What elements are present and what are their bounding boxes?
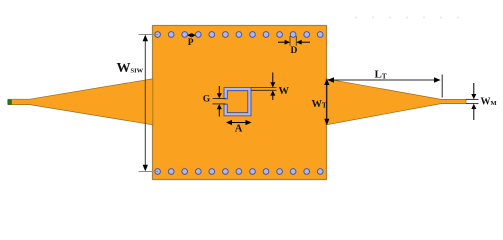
via T11 — [290, 32, 296, 38]
dimension W up arrow — [272, 93, 274, 100]
dimension G up arrow — [218, 107, 220, 117]
via T8 — [250, 32, 256, 38]
right taper transition with microstrip line — [326, 79, 466, 125]
via B9 — [263, 169, 269, 175]
dimension W down arrow — [272, 73, 274, 85]
dimension D tangent line left — [289, 36, 291, 46]
SIW copper body plane — [153, 26, 327, 180]
svg-text:D: D — [291, 46, 298, 56]
dimension W ring extension line bottom — [251, 89, 277, 91]
via B7 — [236, 169, 242, 175]
arrowhead A right — [246, 120, 252, 125]
svg-text:G: G — [203, 95, 211, 105]
dimension W_SIW extension line bottom — [139, 171, 159, 173]
dimension W_M extension line top — [466, 98, 479, 100]
dimension W_M down arrow — [473, 83, 475, 96]
arrowhead W_T bottom — [324, 119, 329, 125]
dimension D left arrow — [278, 41, 287, 43]
arrowhead P left — [187, 33, 191, 37]
arrowhead P right — [192, 33, 196, 37]
svg-text:LT: LT — [375, 69, 387, 81]
svg-text:WSIW: WSIW — [117, 61, 144, 76]
via T2 — [168, 32, 174, 38]
dimension D tangent line right — [295, 36, 297, 46]
dimension A arrow — [229, 122, 250, 124]
dimension G tick top — [213, 98, 226, 100]
dimension W ring extension line top — [251, 87, 277, 89]
via T13 — [317, 32, 323, 38]
dimension L_T extension line right — [441, 75, 443, 98]
via T10 — [277, 32, 283, 38]
dimension G tick bottom — [213, 103, 226, 105]
dimension W_SIW extension line top — [139, 34, 159, 36]
port marker (green) — [8, 100, 12, 104]
via B3 — [182, 169, 188, 175]
svg-text:P: P — [188, 38, 194, 48]
arrowhead L_T left — [327, 77, 334, 82]
svg-text:WM: WM — [481, 96, 497, 107]
via T7 — [236, 32, 242, 38]
svg-text:W: W — [279, 86, 290, 97]
svg-text:A: A — [235, 124, 243, 135]
arrowhead W_SIW bottom — [143, 165, 148, 172]
via T9 — [263, 32, 269, 38]
via B1 — [155, 169, 161, 175]
dimension W_SIW arrow line — [144, 37, 146, 169]
dimension D right arrow — [299, 41, 310, 43]
via B13 — [317, 169, 323, 175]
via T5 — [209, 32, 215, 38]
dimension L_T arrow line — [330, 79, 439, 81]
dimension G down arrow — [218, 86, 220, 96]
via B5 — [209, 169, 215, 175]
dimension W_M extension line bottom — [466, 103, 479, 105]
arrowhead A left — [226, 120, 232, 125]
via T6 — [223, 32, 229, 38]
arrowhead L_T right — [434, 77, 441, 82]
dimension W_M up arrow — [473, 107, 475, 120]
split ring resonator SRR — [224, 88, 251, 116]
via B8 — [250, 169, 256, 175]
via B4 — [195, 169, 201, 175]
dimension P arrow — [188, 34, 195, 36]
via B11 — [290, 169, 296, 175]
via B2 — [168, 169, 174, 175]
via holes top row — [155, 32, 323, 38]
via T1 — [155, 32, 161, 38]
faint dotted artifact row top right — [355, 16, 459, 18]
dimension W_T arrow line — [326, 82, 328, 123]
via B6 — [223, 169, 229, 175]
arrowhead W_T top — [324, 79, 329, 85]
via holes bottom row — [155, 169, 323, 175]
via T4 — [195, 32, 201, 38]
arrowhead W_SIW top — [143, 35, 148, 42]
via B12 — [304, 169, 310, 175]
via T12 — [304, 32, 310, 38]
via T3 — [182, 32, 188, 38]
left taper transition with microstrip feed line — [8, 79, 153, 125]
via B10 — [277, 169, 283, 175]
